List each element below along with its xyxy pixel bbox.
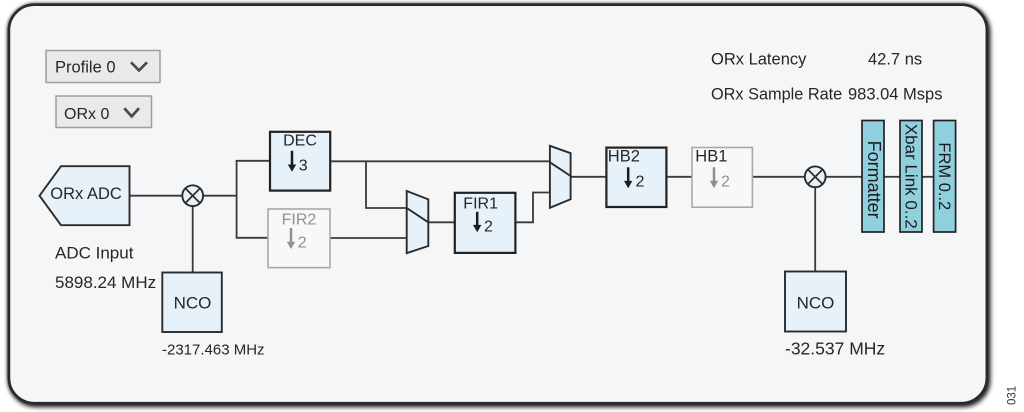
- block FIR1: [455, 193, 516, 253]
- wire junction to FIR2: [236, 237, 268, 239]
- svg-text:ORx Latency: ORx Latency: [711, 51, 807, 69]
- svg-text:2: 2: [636, 173, 645, 190]
- wire HB1 to mixer2: [752, 176, 805, 178]
- block FRM 0..2: [934, 121, 956, 233]
- svg-text:Profile 0: Profile 0: [55, 59, 116, 77]
- wire junction vertical: [236, 161, 238, 238]
- block Xbar Link 0..2: [900, 121, 922, 233]
- wire junction to DEC: [236, 160, 270, 162]
- svg-text:Xbar Link 0..2: Xbar Link 0..2: [902, 124, 921, 229]
- svg-text:2: 2: [298, 235, 307, 252]
- svg-text:DEC: DEC: [283, 132, 317, 149]
- wire ADC to mixer1: [130, 195, 184, 197]
- wire mixer2 to Formatter: [825, 176, 862, 178]
- mux MX2: [550, 146, 571, 208]
- wire DEC to mux2: [330, 160, 550, 162]
- svg-text:-32.537 MHz: -32.537 MHz: [785, 339, 885, 359]
- mixer M1: [182, 185, 203, 206]
- svg-text:ORx ADC: ORx ADC: [50, 185, 122, 203]
- wire mux1 to FIR1: [428, 221, 455, 223]
- svg-text:3: 3: [299, 158, 308, 175]
- wire branch down to mux1: [366, 161, 407, 208]
- block NCO 2: [785, 272, 846, 332]
- svg-text:-2317.463 MHz: -2317.463 MHz: [162, 342, 265, 359]
- svg-text:FIR1: FIR1: [463, 195, 498, 212]
- wire mux2 to HB2: [571, 176, 607, 178]
- wire HB2 to HB1: [666, 176, 692, 178]
- dropdown Profile 0: [46, 51, 160, 83]
- wire Formatter to Xbar Link: [884, 176, 900, 178]
- mixer M2: [805, 166, 826, 187]
- svg-text:HB1: HB1: [695, 148, 727, 166]
- block ORx ADC (pentagon): [40, 166, 130, 225]
- svg-text:ADC Input: ADC Input: [55, 243, 134, 262]
- svg-text:NCO: NCO: [174, 294, 212, 313]
- dropdown ORx 0: [56, 96, 152, 128]
- svg-text:HB2: HB2: [608, 148, 640, 166]
- svg-text:NCO: NCO: [797, 294, 835, 313]
- svg-text:5898.24 MHz: 5898.24 MHz: [55, 273, 156, 292]
- wire mixer1 to NCO: [192, 206, 194, 272]
- svg-text:ORx Sample Rate: ORx Sample Rate: [711, 86, 842, 104]
- block HB1 (inactive): [692, 148, 752, 208]
- block Formatter: [862, 121, 884, 233]
- wire mixer2 to NCO: [814, 188, 816, 272]
- wire FIR1 to mux2: [515, 193, 550, 223]
- svg-text:2: 2: [721, 173, 730, 190]
- wire mixer1 to junction: [203, 195, 238, 197]
- block DEC decimate-by-3: [270, 132, 330, 191]
- block NCO 1: [162, 273, 222, 333]
- svg-text:FRM 0..2: FRM 0..2: [935, 142, 953, 210]
- svg-text:ORx 0: ORx 0: [64, 106, 109, 123]
- svg-text:Formatter: Formatter: [864, 141, 884, 219]
- mux MX1: [407, 191, 429, 253]
- svg-text:42.7 ns: 42.7 ns: [868, 51, 922, 69]
- block HB2: [606, 148, 666, 208]
- svg-text:FIR2: FIR2: [282, 212, 317, 229]
- block FIR2 (inactive): [268, 209, 330, 268]
- wire Xbar Link to FRM: [922, 176, 934, 178]
- svg-text:983.04 Msps: 983.04 Msps: [848, 86, 942, 104]
- svg-text:2: 2: [484, 218, 493, 235]
- wire FIR2 to mux1: [330, 237, 407, 239]
- svg-text:031: 031: [1007, 386, 1019, 405]
